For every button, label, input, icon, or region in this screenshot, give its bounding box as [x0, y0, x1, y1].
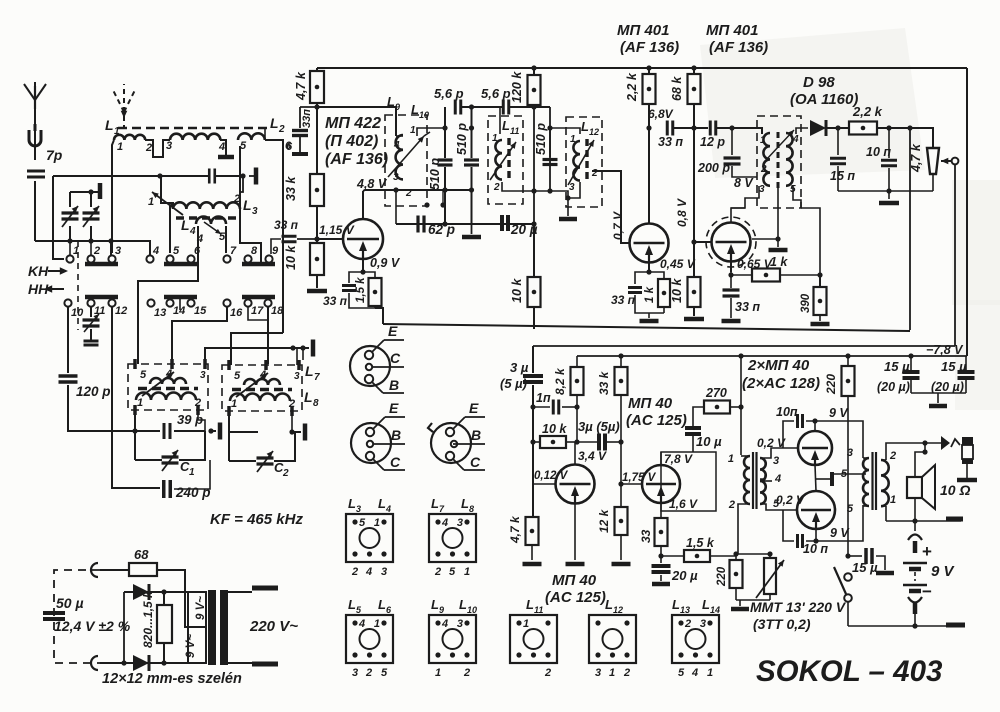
wire L2 branch to L7 pin5	[231, 333, 283, 365]
svg-text:0,12 V: 0,12 V	[534, 470, 569, 482]
svg-text:3: 3	[356, 504, 361, 514]
svg-text:33 k: 33 k	[284, 176, 298, 201]
wire T8 collector to output trafo	[816, 505, 863, 541]
wire C2 right	[274, 432, 295, 461]
wire x472 down	[471, 107, 473, 158]
wire contact 10 down through 120p	[67, 307, 69, 373]
junction rail C at 741	[738, 353, 743, 358]
resistor 220 (bias)	[735, 554, 737, 560]
svg-text:C: C	[390, 454, 401, 470]
svg-text:33 п: 33 п	[323, 294, 348, 308]
svg-text:5: 5	[173, 245, 180, 257]
svg-text:8: 8	[313, 398, 319, 409]
svg-text:12: 12	[589, 127, 599, 137]
svg-text:8: 8	[469, 504, 474, 514]
svg-text:10: 10	[71, 307, 84, 319]
capacitor 7p	[27, 170, 45, 173]
svg-text:L: L	[378, 597, 386, 612]
output transformer primary	[863, 458, 869, 506]
svg-text:11: 11	[94, 305, 105, 317]
svg-text:4: 4	[441, 517, 448, 529]
junction	[658, 553, 663, 558]
junction	[161, 589, 166, 594]
variable capacitor C (gang 1)	[69, 192, 71, 207]
svg-text:33 k: 33 k	[597, 370, 611, 395]
wire base to transistor	[317, 238, 344, 240]
transistor output МП40 #2	[797, 491, 835, 529]
svg-text:1: 1	[464, 566, 470, 578]
wire conn to 68	[100, 569, 129, 571]
wire T4 collector up	[731, 208, 745, 222]
svg-text:10: 10	[467, 605, 477, 615]
top supply rail	[317, 67, 967, 69]
svg-text:33 п: 33 п	[611, 293, 636, 307]
svg-text:6,8V: 6,8V	[648, 107, 674, 121]
capacitor 10n	[888, 128, 890, 158]
cap 10п feedback bottom	[806, 529, 816, 541]
wire y128 to L12	[550, 128, 580, 134]
svg-text:4,8 V: 4,8 V	[356, 177, 388, 191]
capacitor 510p #1	[444, 128, 446, 158]
svg-text:2×МП 40: 2×МП 40	[747, 357, 810, 374]
wire L8 pin2 down	[291, 411, 293, 432]
junction	[442, 187, 447, 192]
svg-text:(П 402): (П 402)	[325, 133, 378, 150]
coil L11 winding	[495, 140, 502, 180]
svg-text:3: 3	[457, 517, 463, 529]
svg-text:L: L	[502, 118, 510, 133]
contact bar 8-9	[242, 262, 275, 267]
svg-text:12: 12	[115, 305, 127, 317]
output transformer core	[871, 452, 873, 510]
driver transformer secondary top	[760, 458, 766, 481]
junction	[547, 125, 552, 130]
resistor 820...1,5k	[157, 605, 172, 643]
svg-text:33 п: 33 п	[274, 218, 299, 232]
plate chassis	[303, 424, 308, 441]
resistor 2,2k (detector)	[849, 122, 877, 135]
switch contact 7	[223, 255, 230, 262]
junction	[531, 188, 536, 193]
svg-text:1: 1	[707, 667, 713, 679]
det secondary winding	[786, 133, 793, 186]
svg-text:МП 401: МП 401	[706, 22, 758, 39]
emitter RC: capacitor 33п	[349, 272, 363, 283]
primary connection top	[228, 591, 252, 593]
wire L2 pin6 down	[265, 140, 283, 333]
capacitor 15µ(20µ) #1	[908, 353, 913, 358]
pinout box L5/L6	[346, 615, 393, 663]
arrow through L3 (variable)	[152, 192, 183, 215]
capacitor 5,6p #1	[454, 100, 457, 115]
svg-text:510 p: 510 p	[455, 123, 469, 155]
wire drv sec bottom to T8 base	[760, 504, 797, 510]
svg-text:12: 12	[613, 605, 623, 615]
label frame 7,8V/1,6V	[661, 452, 716, 511]
wire 120p to IF loop	[68, 385, 135, 431]
svg-text:4: 4	[189, 226, 196, 237]
det core dashes	[777, 132, 780, 188]
driver transformer core	[752, 452, 754, 509]
switch contact 15	[187, 299, 194, 306]
svg-text:E: E	[389, 400, 399, 416]
wire base T6	[621, 483, 643, 485]
svg-text:5,6 p: 5,6 p	[481, 86, 511, 101]
supply rail C	[577, 355, 967, 357]
svg-text:20 µ: 20 µ	[671, 568, 698, 583]
svg-text:4,7 k: 4,7 k	[294, 71, 308, 101]
switch contact 10	[64, 299, 71, 306]
capacitor 33п IF	[666, 121, 669, 136]
svg-text:270: 270	[705, 386, 727, 400]
wire 240p loop	[112, 487, 160, 489]
svg-text:3: 3	[166, 140, 172, 152]
svg-text:L: L	[243, 197, 252, 213]
svg-text:3: 3	[457, 618, 463, 630]
det primary winding	[763, 133, 770, 186]
svg-text:(AC 125): (AC 125)	[626, 412, 687, 429]
svg-text:9 V: 9 V	[830, 526, 850, 540]
plate chassis	[218, 423, 223, 440]
svg-text:2: 2	[728, 499, 735, 511]
svg-text:1: 1	[148, 196, 154, 208]
speaker	[907, 477, 922, 498]
svg-text:−7,8 V: −7,8 V	[926, 343, 964, 357]
svg-text:1: 1	[609, 667, 615, 679]
wire 68 to transformer	[157, 570, 188, 627]
wire L4 pin5 down to contact7	[225, 226, 227, 253]
wire between 5,6p	[462, 106, 503, 108]
wire 1k up to det pin5	[801, 208, 820, 275]
junction	[691, 65, 696, 70]
svg-text:8,2 k: 8,2 k	[553, 367, 567, 395]
svg-text:1: 1	[137, 397, 143, 409]
junction	[88, 189, 93, 194]
svg-text:3µ (5µ): 3µ (5µ)	[578, 419, 620, 434]
svg-text:18: 18	[271, 305, 284, 317]
junction emitter T3	[646, 269, 651, 274]
coil box L9/L10	[385, 115, 427, 206]
svg-text:L: L	[305, 363, 314, 379]
junction base node	[314, 236, 319, 241]
wire T5 collector	[574, 442, 576, 464]
capacitor 62p	[416, 216, 419, 233]
resistor 220 supply	[845, 353, 850, 358]
arrow through L4	[204, 222, 221, 234]
diode D98	[810, 120, 826, 136]
junction	[393, 187, 398, 192]
capacitor 200p	[731, 128, 733, 155]
switch bottom bus	[848, 625, 915, 627]
svg-text:10 k: 10 k	[670, 278, 684, 303]
diode rectifier bottom	[133, 655, 149, 671]
svg-text:МП 40: МП 40	[628, 395, 673, 412]
svg-text:5: 5	[140, 369, 147, 381]
svg-text:5: 5	[219, 231, 226, 243]
wire contact3 up	[110, 241, 112, 256]
wire contact 14-15 region down	[179, 297, 181, 310]
junction box pins	[424, 202, 429, 207]
resistor 10k	[316, 206, 318, 244]
svg-text:5: 5	[678, 667, 685, 679]
cap 10п feedback top	[806, 421, 815, 431]
svg-text:2,2 k: 2,2 k	[625, 72, 639, 102]
svg-text:7p: 7p	[46, 147, 63, 163]
svg-text:+: +	[922, 542, 932, 561]
variable capacitor C1	[162, 455, 179, 458]
wire L5 pin1 down to 39p loop	[134, 410, 136, 431]
driver transformer secondary bottom	[760, 481, 766, 504]
svg-text:SOKOL – 403: SOKOL – 403	[756, 655, 943, 688]
wire loop down to C1	[134, 431, 136, 460]
coil arrow L11	[490, 142, 516, 180]
svg-text:2: 2	[493, 182, 500, 193]
contact bar 14-15	[164, 295, 197, 300]
svg-text:1 k: 1 k	[644, 286, 656, 303]
coil arrow	[388, 136, 424, 177]
wire bus left drop	[53, 176, 64, 259]
antenna (telescopic) with coupling loop	[34, 109, 36, 160]
svg-text:15 µ: 15 µ	[941, 359, 967, 374]
transistor МП40 #2 (AF)	[642, 465, 680, 503]
svg-text:68 k: 68 k	[670, 76, 684, 101]
switch contact 17	[244, 299, 251, 306]
wire L5 pin3 top	[205, 348, 309, 364]
svg-text:2: 2	[889, 450, 896, 462]
wire 12p to det transformer pin1	[717, 128, 762, 134]
capacitor 510p #2	[464, 158, 479, 161]
svg-text:3: 3	[393, 172, 399, 183]
coupling cap 3µ(5µ) input	[532, 346, 534, 373]
switch contact 6	[187, 255, 194, 262]
pinout box L7/L8	[429, 514, 476, 562]
svg-text:1: 1	[374, 618, 380, 630]
wire base T4	[694, 128, 712, 242]
svg-text:L: L	[459, 597, 467, 612]
wire 4,7k to base node	[316, 107, 318, 175]
svg-text:1,75 V: 1,75 V	[622, 472, 657, 484]
svg-text:9 V~: 9 V~	[185, 634, 197, 658]
svg-text:L: L	[672, 597, 680, 612]
output transformer secondary	[881, 460, 889, 506]
switch contact 2	[87, 255, 94, 262]
svg-text:C: C	[390, 350, 401, 366]
ground under 10k	[307, 289, 327, 294]
svg-text:(AF 136): (AF 136)	[325, 151, 388, 168]
svg-text:4: 4	[259, 369, 266, 381]
svg-text:14: 14	[710, 605, 720, 615]
svg-text:10 п: 10 п	[803, 542, 828, 556]
ground mid	[471, 224, 473, 234]
cap 20µ AF	[660, 556, 662, 563]
L11 core dashes	[507, 138, 510, 182]
svg-text:1: 1	[570, 134, 576, 145]
svg-text:D 98: D 98	[803, 74, 835, 91]
dashed coil top bus	[118, 127, 268, 129]
resistor 4,7k AF	[526, 517, 539, 545]
transformer secondary winding block	[188, 592, 206, 663]
svg-text:4,7 k: 4,7 k	[508, 515, 522, 544]
wire up to 5,6p	[444, 107, 446, 128]
switch contact 13	[147, 299, 154, 306]
svg-text:1 k: 1 k	[770, 255, 788, 269]
wire collector up	[362, 191, 364, 219]
antenna (dashed rod)	[112, 84, 136, 128]
transformer core bars	[208, 590, 216, 665]
junction	[442, 125, 447, 130]
svg-text:4: 4	[218, 141, 225, 153]
svg-text:(3TT 0,2): (3TT 0,2)	[753, 616, 811, 632]
wire L12 pin3 gnd	[568, 182, 580, 198]
svg-text:2: 2	[351, 566, 358, 578]
switch contact 14	[166, 299, 173, 306]
wire emitter T3 down	[648, 262, 650, 272]
ground at L11 and L12	[559, 217, 577, 222]
resistor 10k AF	[533, 441, 541, 443]
svg-text:4: 4	[441, 618, 448, 630]
wire L11 pin2 ground	[502, 182, 568, 216]
svg-text:1: 1	[760, 135, 766, 146]
pot wiper arrow	[941, 160, 952, 162]
svg-text:L: L	[431, 597, 439, 612]
svg-text:5: 5	[381, 667, 388, 679]
transistor socket diagram 2 (E B C)	[351, 423, 391, 463]
audio line from pot to AF input	[533, 345, 955, 347]
svg-text:MMT 13' 220 V: MMT 13' 220 V	[750, 599, 847, 615]
gang link dashed	[77, 241, 79, 330]
junction 20µ right	[531, 221, 536, 226]
wire det pin3 to T4	[731, 186, 759, 208]
svg-text:6: 6	[285, 140, 292, 152]
svg-text:4: 4	[165, 368, 172, 380]
svg-text:L: L	[702, 597, 710, 612]
resistor 2,2k	[648, 68, 650, 75]
svg-text:33: 33	[639, 529, 653, 543]
coil L3	[173, 202, 240, 209]
svg-text:16: 16	[230, 307, 243, 319]
wire gang to bus	[69, 226, 71, 241]
svg-text:1: 1	[435, 667, 441, 679]
transistor socket diagram 1 (E C B)	[350, 346, 390, 386]
wire 120k node down	[533, 107, 535, 224]
resistor 8,2k	[576, 356, 578, 368]
svg-text:3: 3	[847, 447, 853, 459]
cap 10µ electrolytic	[693, 407, 705, 426]
wire L5 pin2 down	[198, 410, 205, 431]
svg-text:68: 68	[134, 547, 149, 562]
wire contact8-9 up	[240, 146, 261, 264]
junction MMT node	[733, 551, 738, 556]
wire drv sec mid tap	[760, 480, 772, 482]
svg-text:510 p: 510 p	[534, 123, 548, 155]
wire 10k to ground	[316, 275, 318, 288]
svg-text:L: L	[605, 597, 613, 612]
svg-text:4: 4	[393, 140, 400, 151]
resistor 33	[655, 518, 668, 546]
pinout box L12 pins	[589, 615, 636, 663]
svg-text:3: 3	[115, 245, 121, 257]
svg-text:10п: 10п	[776, 405, 798, 419]
svg-text:(5 µ): (5 µ)	[500, 376, 527, 391]
emitter RC: resistor 1,5k	[363, 272, 375, 277]
junction top rail 120k	[531, 65, 536, 70]
capacitor 12p	[709, 121, 712, 136]
svg-text:4: 4	[385, 504, 391, 514]
wire base T5	[533, 483, 556, 485]
capacitor 39p	[163, 423, 166, 439]
svg-text:3: 3	[352, 667, 358, 679]
junction	[208, 428, 213, 433]
svg-text:2: 2	[93, 245, 100, 257]
svg-text:МП 401: МП 401	[617, 22, 669, 39]
phone plug	[962, 437, 973, 445]
svg-text:B: B	[391, 427, 401, 443]
svg-text:4,7 k: 4,7 k	[909, 143, 923, 173]
resistor 68k	[693, 68, 695, 75]
svg-text:2: 2	[623, 667, 630, 679]
speaker wire	[915, 443, 925, 477]
svg-text:9 V~: 9 V~	[195, 596, 207, 620]
plate (chassis) cap	[249, 175, 255, 177]
svg-text:10 k: 10 k	[284, 245, 298, 270]
svg-text:820...1,5 k: 820...1,5 k	[141, 590, 155, 648]
svg-text:4: 4	[358, 618, 365, 630]
resistor 33k AF	[618, 353, 623, 358]
AGC rail	[383, 324, 910, 331]
svg-text:5: 5	[240, 140, 247, 152]
thermistor MMT	[769, 554, 771, 558]
svg-text:3: 3	[381, 566, 387, 578]
resistor 1k (T4)	[728, 272, 733, 277]
wire cap to plate	[216, 175, 243, 177]
svg-text:5: 5	[449, 566, 456, 578]
svg-text:3: 3	[294, 371, 300, 382]
svg-text:1,5 k: 1,5 k	[686, 536, 715, 550]
svg-text:3: 3	[773, 455, 779, 467]
L12 core dashes	[585, 139, 588, 183]
svg-text:(2×AC 128): (2×AC 128)	[742, 375, 820, 392]
svg-text:(AF 136): (AF 136)	[709, 39, 768, 56]
svg-text:15: 15	[194, 305, 207, 317]
resistor 68	[129, 563, 157, 576]
svg-text:13: 13	[680, 605, 690, 615]
wire 39p loop	[135, 430, 160, 432]
svg-text:2,2 k: 2,2 k	[852, 104, 883, 119]
junction	[289, 429, 294, 434]
junction	[157, 173, 162, 178]
svg-text:−: −	[922, 582, 932, 601]
svg-text:14: 14	[173, 305, 185, 317]
variable capacitor C2	[257, 456, 274, 459]
wire L12 pin2 to base T3	[592, 171, 630, 243]
wire T6 collector up	[660, 452, 662, 465]
wire into L3	[161, 176, 173, 208]
wire coil tap 4 to ground	[220, 140, 226, 155]
svg-text:L: L	[581, 119, 589, 134]
svg-text:11: 11	[510, 126, 519, 136]
svg-text:33 п: 33 п	[735, 300, 760, 314]
wire emitter down	[362, 259, 364, 272]
svg-text:1: 1	[410, 125, 416, 136]
svg-text:L: L	[304, 389, 313, 405]
wire contact 16 down to L5 pin4	[172, 307, 227, 364]
transistor output МП40 #1	[798, 431, 832, 465]
svg-text:2: 2	[463, 667, 470, 679]
junction 200p	[729, 125, 734, 130]
svg-text:0,9 V: 0,9 V	[370, 256, 401, 270]
svg-text:8 V: 8 V	[734, 176, 754, 190]
capacitor 240p	[162, 480, 166, 498]
